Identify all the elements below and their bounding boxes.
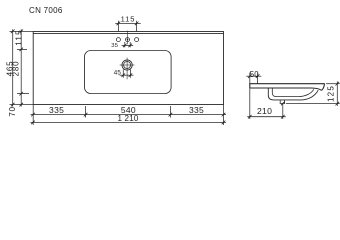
svg-text:125: 125 bbox=[327, 85, 336, 102]
svg-text:70: 70 bbox=[8, 106, 17, 117]
svg-text:335: 335 bbox=[49, 105, 64, 115]
svg-text:280: 280 bbox=[12, 61, 21, 77]
svg-text:115: 115 bbox=[15, 29, 24, 46]
svg-text:210: 210 bbox=[257, 106, 272, 116]
svg-text:50: 50 bbox=[250, 70, 260, 79]
svg-text:115: 115 bbox=[121, 15, 136, 24]
svg-text:35: 35 bbox=[111, 43, 118, 49]
svg-text:CN 7006: CN 7006 bbox=[29, 6, 63, 15]
svg-text:335: 335 bbox=[189, 105, 204, 115]
svg-text:1 210: 1 210 bbox=[117, 114, 138, 123]
svg-text:45: 45 bbox=[114, 69, 122, 76]
